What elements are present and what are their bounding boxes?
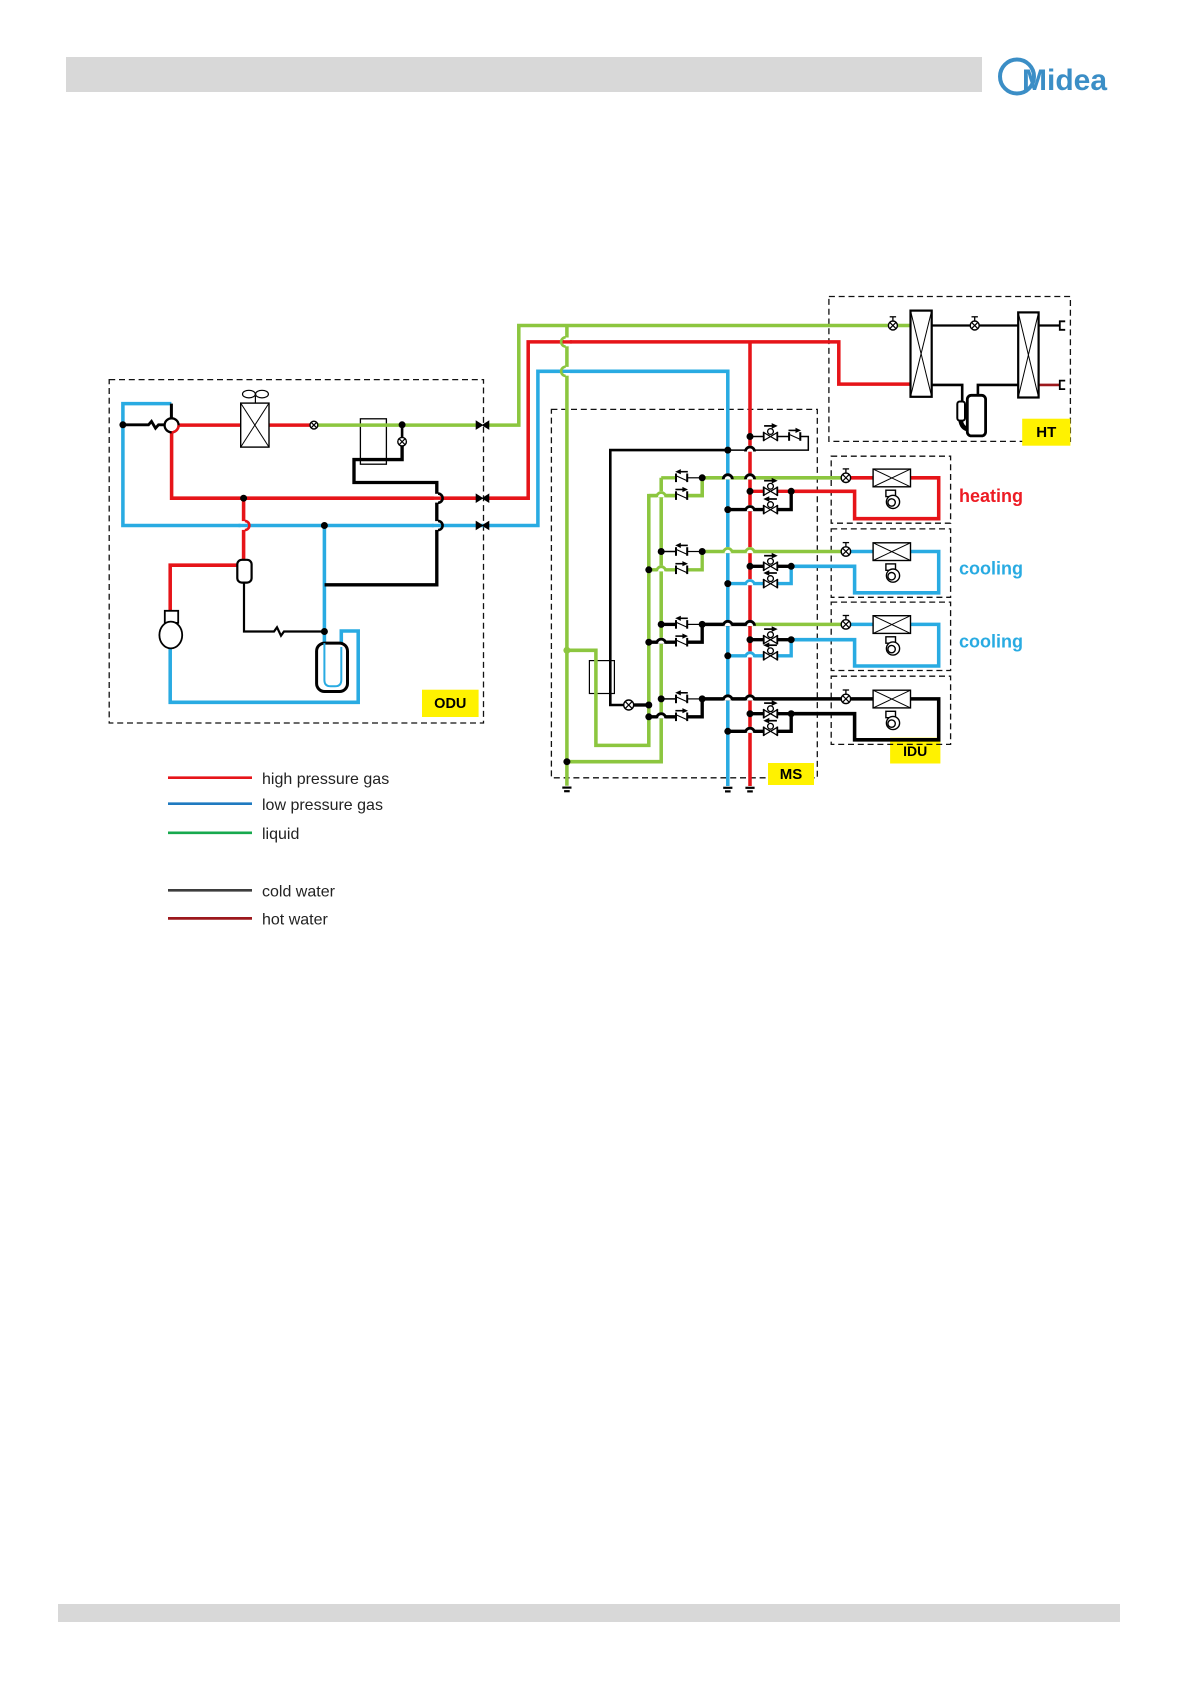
legend: high pressure gas <box>168 776 252 779</box>
legend: liquid <box>168 831 252 834</box>
wire: high pressure gas main (red) <box>172 431 476 499</box>
connection bracket 1 <box>1060 321 1065 330</box>
svg-text:MS: MS <box>780 766 803 783</box>
subcool EEV (circle-X) <box>398 437 407 446</box>
IDU4 coil circuit (black) <box>851 697 874 701</box>
ODU service valve (liquid) <box>476 421 489 429</box>
wire: liquid line (green) ODU <box>318 423 476 427</box>
svg-text:cooling: cooling <box>959 559 1023 579</box>
svg-text:ODU: ODU <box>434 696 466 712</box>
branch3 LP valve <box>763 642 777 660</box>
wire: ODU subcool circuit (black) <box>401 425 404 438</box>
branch2 EEV lower <box>675 561 688 574</box>
branch4 EEV upper <box>675 690 688 703</box>
IDU2 coil HX <box>873 543 910 561</box>
oil separator <box>237 560 251 583</box>
wire: compressor discharge (red) <box>170 565 237 611</box>
IDU2 enclosure <box>831 529 950 597</box>
HT water valve <box>970 317 979 330</box>
expansion device (circle-X) <box>310 421 318 429</box>
IDU1 coil HX <box>873 469 910 487</box>
HT liquid shutoff valve <box>888 317 897 330</box>
HT branch valve <box>764 423 778 441</box>
line hops <box>723 473 732 479</box>
wire: subcool header (black) <box>610 450 728 705</box>
svg-text:liquid: liquid <box>262 826 299 843</box>
IDU2 coil circuit (blue) <box>851 550 874 554</box>
IDU label (under borders/pipes) <box>890 738 940 764</box>
branch1 HP valve <box>764 478 778 496</box>
svg-text:heating: heating <box>959 486 1023 506</box>
wire: liquid sub loop A (green) <box>567 496 676 746</box>
HT branch EEV <box>789 428 802 441</box>
IDU3 coil HX <box>873 616 910 634</box>
wire: branch4 rows (water IDU) <box>661 698 675 700</box>
ODU enclosure <box>109 380 483 723</box>
header bar <box>66 57 982 92</box>
HT water pump <box>957 395 985 436</box>
4-way valve <box>165 418 179 432</box>
IDU3 coil circuit (blue) <box>851 623 874 627</box>
connection bracket 2 <box>1060 381 1065 390</box>
wire: branch1 rows (heating IDU) <box>661 476 675 479</box>
ground (liquid) <box>562 788 571 792</box>
wire: condenser to expansion valve (red) <box>269 423 310 427</box>
HT water HX <box>1018 312 1038 397</box>
wire: discharge to condenser (red) <box>179 423 241 427</box>
IDU1 fan <box>886 490 900 508</box>
legend: hot water <box>168 917 252 920</box>
legend: cold water <box>168 889 252 892</box>
svg-text:cold water: cold water <box>262 884 336 901</box>
wire: branch2 rows (cooling IDU) <box>661 551 675 553</box>
HT refrigerant-water HX link (black) <box>932 324 971 326</box>
wire: liquid line (green) to HT header <box>489 326 888 426</box>
wire: red branch to oil separator <box>242 498 246 560</box>
svg-text:cooling: cooling <box>959 632 1023 652</box>
svg-text:high pressure gas: high pressure gas <box>262 771 389 788</box>
wire: liquid sub loop B (green) <box>567 478 661 762</box>
MS subcooler HX <box>589 661 614 694</box>
ODU subcooler HX <box>360 419 386 464</box>
branch1 EEV lower <box>675 487 688 500</box>
branch4 HP valve <box>764 700 778 718</box>
branch2 EEV upper <box>675 543 688 556</box>
IDU1 coil circuit (red) <box>851 476 874 480</box>
IDU3 shutoff valve <box>841 616 850 630</box>
HT hot water outlet (dark red) <box>1039 384 1060 387</box>
wire: oil return (black) with capillary <box>244 583 324 636</box>
wire: branch3 rows (cooling IDU) <box>661 623 675 626</box>
branch2 HP valve <box>764 553 778 571</box>
ODU label <box>422 690 479 717</box>
IDU1 shutoff valve <box>841 469 850 483</box>
branch4 EEV lower <box>675 708 688 721</box>
HT enclosure <box>829 297 1071 442</box>
wire: liquid into HT HX (green) <box>897 324 910 328</box>
branch1 EEV upper <box>675 469 688 482</box>
accumulator <box>317 643 348 691</box>
wire: 4-way valve suction link (black) <box>123 421 165 428</box>
branch3 EEV lower <box>675 634 688 647</box>
wire: suction drop to accumulator (blue) <box>323 526 327 644</box>
branch4 LP valve <box>763 718 777 736</box>
ground (HP gas) <box>745 788 754 792</box>
Midea logo <box>1000 60 1107 98</box>
svg-text:IDU: IDU <box>903 743 927 759</box>
MS enclosure <box>551 409 817 777</box>
ODU service valve (HP gas) <box>476 494 489 502</box>
HT refrigerant HX <box>911 311 932 397</box>
branch2 LP valve <box>763 570 777 588</box>
junction dots <box>563 647 570 654</box>
branch3 EEV upper <box>675 616 688 629</box>
IDU3 enclosure <box>831 602 950 670</box>
wire: low pressure gas main (blue) ODU to MS <box>123 371 728 786</box>
condenser heat exchanger <box>241 403 269 447</box>
branch1 LP valve <box>763 496 777 514</box>
IDU4 coil HX <box>873 690 910 708</box>
MS label <box>768 763 814 785</box>
IDU2 shutoff valve <box>841 543 850 557</box>
MS subcool EEV (circle-X) <box>624 700 634 710</box>
IDU4 shutoff valve <box>841 690 850 704</box>
condenser fan <box>243 390 269 403</box>
branch3 HP valve <box>764 626 778 644</box>
IDU1 enclosure <box>831 456 950 523</box>
svg-text:HT: HT <box>1036 424 1056 441</box>
ground (LP gas) <box>723 788 732 792</box>
IDU2 fan <box>886 564 900 582</box>
HT outlet stub (black) <box>1039 324 1060 326</box>
IDU4 fan <box>886 711 900 729</box>
IDU3 fan <box>886 637 900 655</box>
ODU service valve (LP gas) <box>476 522 489 530</box>
svg-text:Midea: Midea <box>1022 64 1107 97</box>
compressor <box>159 611 182 649</box>
svg-text:low pressure gas: low pressure gas <box>262 797 383 814</box>
IDU4 enclosure <box>831 676 950 744</box>
svg-text:hot water: hot water <box>262 912 328 929</box>
legend: low pressure gas <box>168 802 252 805</box>
wire: accumulator outlet to compressor (blue) <box>170 631 358 702</box>
wire: 4-way valve top port (black) <box>170 404 173 419</box>
wire: liquid main vertical (green) MS <box>565 326 569 786</box>
HT water loop (black) <box>932 385 963 402</box>
footer bar <box>58 1604 1120 1622</box>
accumulator J-tube <box>324 643 341 686</box>
HT label <box>1022 419 1070 446</box>
wire: HT branch valve loop (thin black) <box>750 436 764 438</box>
wire: red main vertical MS <box>748 342 752 786</box>
